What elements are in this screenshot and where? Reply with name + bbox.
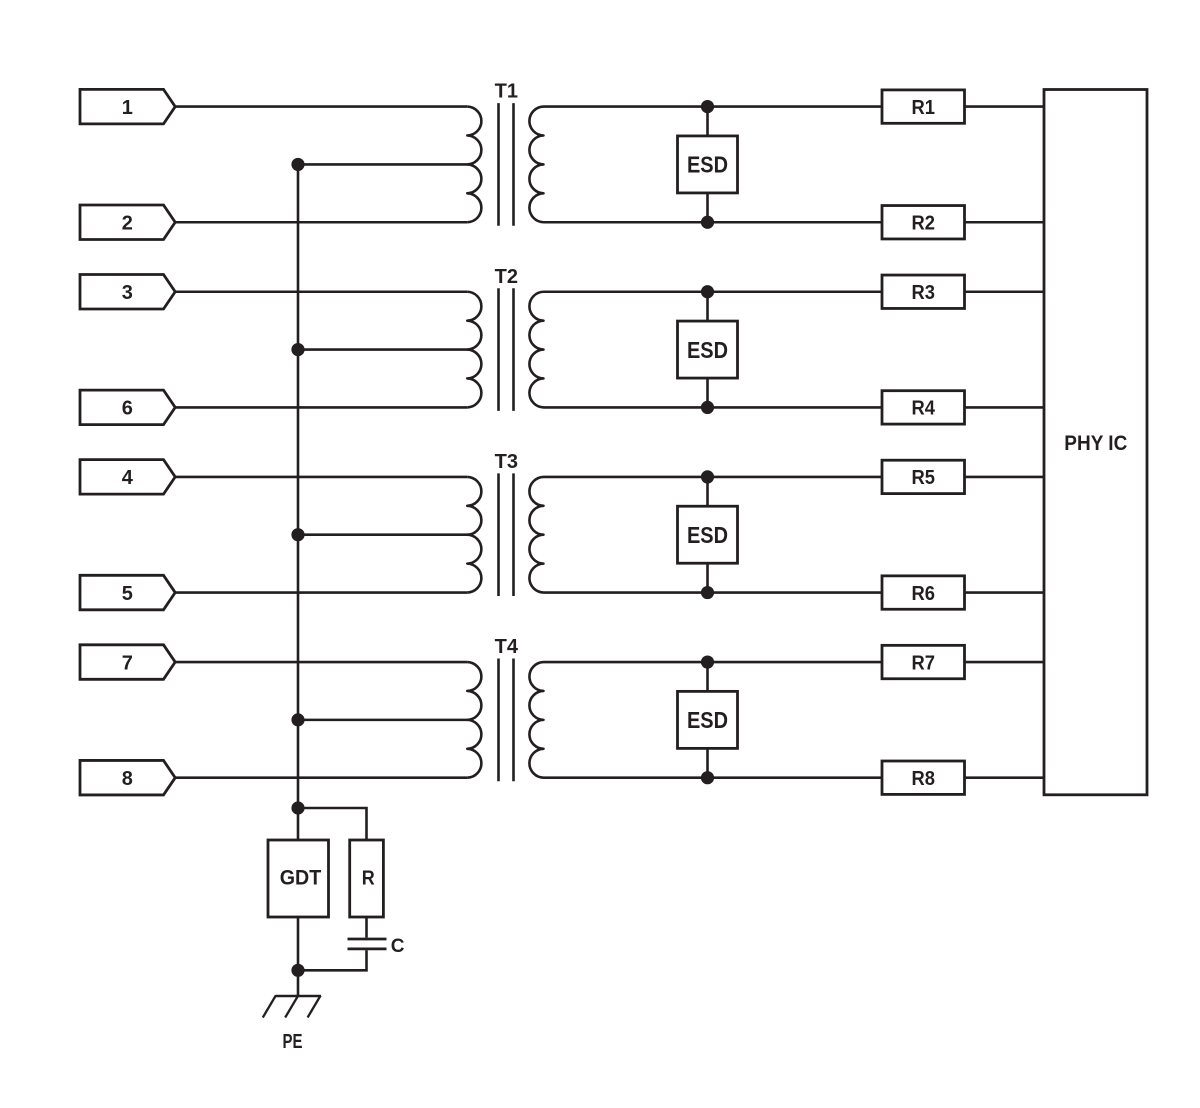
transformer T4 core bbox=[499, 659, 514, 782]
transformer T2 secondary winding bbox=[529, 292, 543, 408]
ESD suppressor ESD4 bbox=[678, 691, 738, 748]
wire T4 secondary top to R7 bbox=[544, 661, 883, 664]
transformer T3 secondary winding bbox=[529, 477, 543, 593]
node T4 center tap junction bbox=[291, 713, 304, 726]
wire pin 2 to T1 primary bottom bbox=[175, 221, 467, 224]
wire R2 to PHY IC bbox=[965, 221, 1045, 224]
transformer T3 primary winding bbox=[467, 477, 481, 593]
node ground junction bbox=[291, 964, 304, 977]
node ESD4 bottom junction bbox=[701, 771, 714, 784]
svg-text:8: 8 bbox=[122, 768, 133, 790]
wire pin 6 to T2 primary bottom bbox=[175, 406, 467, 409]
resistor R2 bbox=[882, 206, 965, 239]
wire ESD3 column bbox=[706, 477, 709, 593]
wire pin 7 to T4 primary top bbox=[175, 661, 467, 664]
svg-text:R8: R8 bbox=[912, 768, 936, 790]
wire T2 secondary top to R3 bbox=[544, 290, 883, 293]
connector pin 5 bbox=[80, 575, 175, 610]
svg-text:ESD: ESD bbox=[687, 337, 728, 363]
resistor R5 bbox=[882, 460, 965, 493]
svg-text:4: 4 bbox=[122, 467, 134, 489]
wire pin 5 to T3 primary bottom bbox=[175, 591, 467, 594]
wire T2 secondary bottom to R4 bbox=[544, 406, 883, 409]
node ESD4 top junction bbox=[701, 655, 714, 668]
wire pin 1 to T1 primary top bbox=[175, 105, 467, 108]
capacitor C bbox=[348, 939, 387, 949]
svg-text:R6: R6 bbox=[912, 583, 936, 605]
svg-text:C: C bbox=[391, 936, 405, 957]
svg-text:ESD: ESD bbox=[687, 707, 728, 733]
wire pin 3 to T2 primary top bbox=[175, 290, 467, 293]
wire R6 to PHY IC bbox=[965, 591, 1045, 594]
wire T4 secondary bottom to R8 bbox=[544, 776, 883, 779]
gas discharge tube GDT bbox=[268, 840, 329, 917]
svg-text:GDT: GDT bbox=[280, 867, 322, 890]
resistor R7 bbox=[882, 645, 965, 678]
wire R3 to PHY IC bbox=[965, 290, 1045, 293]
wire R1 to PHY IC bbox=[965, 105, 1045, 108]
svg-text:T3: T3 bbox=[495, 451, 518, 473]
svg-text:PE: PE bbox=[283, 1031, 303, 1053]
wire R7 to PHY IC bbox=[965, 661, 1045, 664]
wire GDT to ground node bbox=[297, 917, 300, 970]
ground PE symbol bbox=[263, 996, 321, 1018]
svg-text:5: 5 bbox=[122, 583, 133, 605]
ESD suppressor ESD2 bbox=[678, 321, 738, 378]
connector pin 7 bbox=[80, 645, 175, 680]
node ESD1 bottom junction bbox=[701, 216, 714, 229]
transformer T1 primary winding bbox=[467, 107, 481, 223]
node ESD2 bottom junction bbox=[701, 401, 714, 414]
svg-text:1: 1 bbox=[122, 97, 133, 119]
wire junction to GDT bbox=[297, 808, 300, 840]
svg-text:R: R bbox=[362, 868, 375, 890]
connector pin 4 bbox=[80, 460, 175, 495]
svg-text:R1: R1 bbox=[912, 97, 936, 119]
node T3 center tap junction bbox=[291, 528, 304, 541]
wire T3 secondary top to R5 bbox=[544, 476, 883, 479]
resistor R bbox=[350, 840, 384, 917]
resistor R3 bbox=[882, 275, 965, 308]
wire R4 to PHY IC bbox=[965, 406, 1045, 409]
wire ground node to PE symbol bbox=[297, 970, 300, 996]
transformer T2 core bbox=[499, 288, 514, 411]
node ESD3 top junction bbox=[701, 470, 714, 483]
transformer T4 primary winding bbox=[467, 662, 481, 778]
transformer T4 secondary winding bbox=[529, 662, 543, 778]
svg-text:R2: R2 bbox=[912, 213, 936, 235]
connector pin 1 bbox=[80, 89, 175, 124]
svg-text:ESD: ESD bbox=[687, 522, 728, 548]
svg-text:R4: R4 bbox=[912, 398, 936, 420]
transformer T1 secondary winding bbox=[529, 107, 543, 223]
wire T1 center tap to bus bbox=[298, 163, 467, 166]
svg-text:ESD: ESD bbox=[687, 152, 728, 178]
svg-text:6: 6 bbox=[122, 398, 133, 420]
svg-text:3: 3 bbox=[122, 282, 133, 304]
svg-text:T4: T4 bbox=[495, 636, 519, 658]
svg-text:R7: R7 bbox=[912, 652, 936, 674]
wire common center-tap bus bbox=[297, 164, 300, 808]
wire pin 4 to T3 primary top bbox=[175, 476, 467, 479]
resistor R8 bbox=[882, 761, 965, 794]
ESD suppressor ESD1 bbox=[678, 136, 738, 193]
svg-text:7: 7 bbox=[122, 652, 133, 674]
node ESD1 top junction bbox=[701, 100, 714, 113]
wire capacitor to ground node bbox=[298, 950, 367, 970]
wire T4 center tap to bus bbox=[298, 719, 467, 722]
svg-text:T1: T1 bbox=[495, 81, 518, 103]
node ESD3 bottom junction bbox=[701, 586, 714, 599]
wire R5 to PHY IC bbox=[965, 476, 1045, 479]
svg-text:R5: R5 bbox=[912, 467, 936, 489]
wire R to capacitor C bbox=[365, 917, 368, 938]
wire T3 secondary bottom to R6 bbox=[544, 591, 883, 594]
wire T1 secondary top to R1 bbox=[544, 105, 883, 108]
wire ESD2 column bbox=[706, 292, 709, 408]
svg-text:R3: R3 bbox=[912, 282, 936, 304]
node T1 center tap junction bbox=[291, 158, 304, 171]
node T2 center tap junction bbox=[291, 343, 304, 356]
connector pin 2 bbox=[80, 205, 175, 240]
transformer T3 core bbox=[499, 473, 514, 596]
node bus to protection junction bbox=[291, 801, 304, 814]
resistor R1 bbox=[882, 90, 965, 123]
connector pin 3 bbox=[80, 275, 175, 310]
wire ESD1 column bbox=[706, 107, 709, 223]
wire ESD4 column bbox=[706, 662, 709, 778]
resistor R6 bbox=[882, 576, 965, 609]
node ESD2 top junction bbox=[701, 285, 714, 298]
transformer T2 primary winding bbox=[467, 292, 481, 408]
connector pin 6 bbox=[80, 390, 175, 425]
resistor R4 bbox=[882, 391, 965, 424]
transformer T1 core bbox=[499, 103, 514, 226]
IC U1 PHY IC bbox=[1044, 90, 1147, 795]
wire junction to resistor R branch bbox=[298, 808, 367, 840]
connector pin 8 bbox=[80, 760, 175, 795]
svg-text:T2: T2 bbox=[495, 266, 518, 288]
ESD suppressor ESD3 bbox=[678, 506, 738, 563]
wire T3 center tap to bus bbox=[298, 533, 467, 536]
svg-text:2: 2 bbox=[122, 213, 133, 235]
svg-text:PHY IC: PHY IC bbox=[1064, 432, 1127, 455]
wire R8 to PHY IC bbox=[965, 776, 1045, 779]
wire T2 center tap to bus bbox=[298, 348, 467, 351]
wire pin 8 to T4 primary bottom bbox=[175, 776, 467, 779]
wire T1 secondary bottom to R2 bbox=[544, 221, 883, 224]
